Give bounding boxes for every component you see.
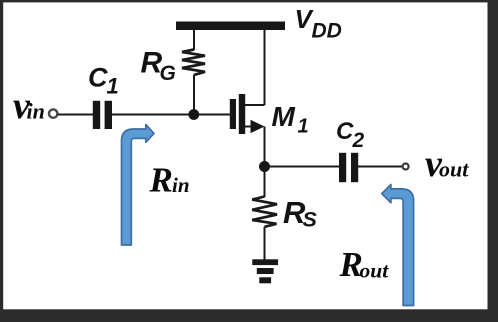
resistor RG bbox=[182, 50, 205, 75]
svg-text:1: 1 bbox=[298, 115, 309, 137]
svg-text:2: 2 bbox=[352, 129, 365, 152]
svg-text:out: out bbox=[360, 259, 390, 283]
wire source down to node bbox=[264, 127, 266, 167]
svg-text:S: S bbox=[303, 208, 318, 232]
wire C1 to gate bbox=[112, 114, 230, 116]
node source junction bbox=[259, 161, 270, 172]
svg-text:out: out bbox=[439, 157, 469, 182]
annotation arrow Rin bbox=[122, 125, 155, 246]
VDD supply rail bbox=[176, 22, 285, 31]
wire RS to ground bbox=[264, 227, 266, 260]
node gate junction bbox=[188, 109, 199, 120]
svg-text:C: C bbox=[88, 63, 108, 93]
ground bbox=[252, 259, 278, 283]
capacitor C1 bbox=[93, 101, 100, 129]
annotation arrow Rout bbox=[382, 185, 414, 306]
svg-text:R: R bbox=[149, 160, 173, 199]
wire vin to C1 bbox=[58, 114, 93, 116]
terminal vin bbox=[49, 109, 57, 117]
wire rail to RG bbox=[193, 30, 195, 50]
wire RG to gate node bbox=[193, 75, 195, 115]
svg-text:1: 1 bbox=[107, 74, 119, 99]
svg-text:in: in bbox=[27, 99, 45, 124]
capacitor C2 bbox=[339, 153, 346, 182]
transistor M1 bbox=[230, 94, 265, 134]
svg-text:DD: DD bbox=[312, 19, 342, 42]
wire source node to RS bbox=[264, 167, 266, 198]
wire source node to C2 bbox=[265, 166, 340, 168]
wire C2 to vout terminal bbox=[358, 166, 403, 168]
terminal vout bbox=[403, 164, 409, 170]
wire drain riser bbox=[264, 30, 266, 105]
svg-text:C: C bbox=[336, 118, 354, 145]
resistor RS bbox=[252, 197, 277, 227]
svg-text:G: G bbox=[160, 62, 176, 85]
svg-text:M: M bbox=[272, 101, 296, 132]
svg-text:in: in bbox=[172, 173, 190, 197]
